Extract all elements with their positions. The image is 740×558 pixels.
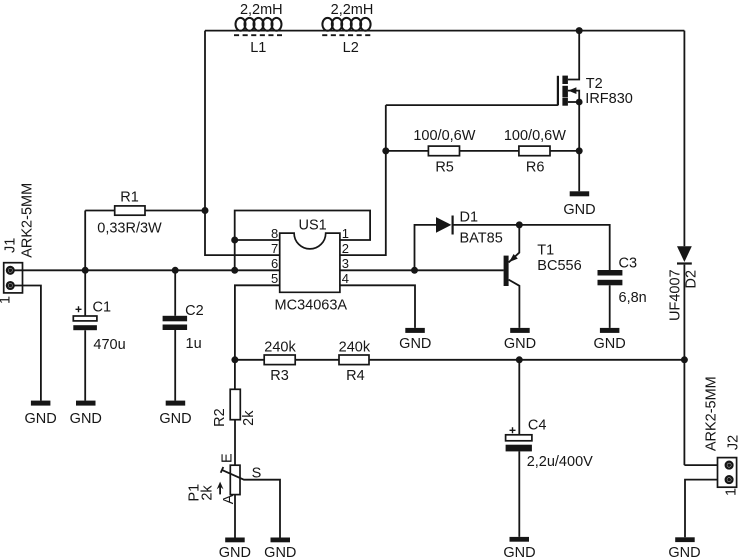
wire J1 pin1 to ground — [13, 286, 41, 401]
svg-text:1: 1 — [723, 488, 739, 496]
node R5 left junction on pin2 vertical — [382, 147, 389, 154]
svg-text:US1: US1 — [298, 217, 326, 233]
svg-text:ARK2-5MM: ARK2-5MM — [703, 376, 719, 451]
capacitor C4 — [506, 360, 594, 537]
svg-text:C4: C4 — [528, 418, 547, 434]
node pin8 loop junction on bus — [231, 267, 238, 274]
wire gate line from pin2 vertical to T2 gate — [386, 104, 558, 106]
svg-text:470u: 470u — [93, 337, 125, 353]
svg-text:GND: GND — [399, 336, 431, 352]
capacitor C2 — [163, 270, 204, 400]
svg-text:GND: GND — [219, 545, 251, 558]
svg-text:C1: C1 — [93, 300, 112, 316]
svg-text:2k: 2k — [199, 485, 215, 501]
svg-text:R2: R2 — [212, 408, 228, 427]
svg-text:MC34063A: MC34063A — [275, 298, 348, 314]
ground GND below J2 — [668, 537, 700, 558]
svg-text:R1: R1 — [120, 190, 139, 206]
svg-text:240k: 240k — [339, 340, 371, 356]
svg-text:1: 1 — [0, 296, 13, 304]
svg-text:R3: R3 — [270, 368, 289, 384]
svg-text:2k: 2k — [241, 410, 257, 426]
wire right vertical from top rail down to D2 — [683, 31, 685, 247]
svg-text:L1: L1 — [250, 40, 266, 56]
svg-text:A: A — [221, 494, 237, 504]
svg-text:D1: D1 — [460, 210, 479, 226]
svg-text:GND: GND — [504, 336, 536, 352]
svg-text:GND: GND — [668, 545, 700, 558]
ground GND below T2 — [563, 191, 595, 218]
diode D1 BAT85 — [436, 210, 519, 247]
svg-text:R6: R6 — [526, 160, 545, 176]
svg-text:GND: GND — [159, 411, 191, 427]
wire D1 cathode to C3 — [519, 225, 609, 270]
svg-text:GND: GND — [70, 411, 102, 427]
svg-text:J1: J1 — [2, 238, 18, 253]
svg-text:J2: J2 — [725, 435, 740, 450]
svg-text:T2: T2 — [586, 76, 603, 92]
node R6 right junction — [576, 147, 583, 154]
svg-text:D2: D2 — [683, 270, 699, 289]
resistor R2 — [212, 360, 257, 465]
resistor R4 — [339, 340, 371, 385]
svg-text:E: E — [219, 453, 235, 463]
svg-text:L2: L2 — [343, 40, 359, 56]
svg-text:GND: GND — [503, 545, 535, 558]
node drain junction on top rail — [576, 27, 583, 34]
wire from R1 node down then right to pin 7 — [205, 211, 280, 256]
svg-text:GND: GND — [593, 336, 625, 352]
pin 4 — [340, 271, 415, 328]
connector J2 — [703, 376, 740, 496]
resistor R6 — [504, 128, 579, 176]
svg-text:T1: T1 — [537, 243, 554, 259]
svg-text:UF4007: UF4007 — [668, 269, 684, 321]
ground GND below pin 4 — [399, 328, 431, 352]
capacitor C1 — [73, 270, 125, 400]
pin 3 — [340, 256, 504, 271]
wire T2 source to ground — [578, 151, 580, 191]
resistor R1 — [85, 190, 205, 237]
node rail left junction — [231, 356, 238, 363]
svg-text:GND: GND — [24, 411, 56, 427]
wire left vertical from top rail down to R1 node — [204, 31, 206, 211]
svg-text:2,2u/400V: 2,2u/400V — [527, 454, 593, 470]
pin 5 — [235, 271, 280, 360]
svg-text:100/0,6W: 100/0,6W — [413, 128, 475, 144]
capacitor C3 — [598, 256, 647, 328]
svg-text:GND: GND — [264, 545, 296, 558]
svg-text:7: 7 — [271, 241, 278, 256]
wire D2 rail down to J2 pin 2 — [684, 464, 717, 466]
node pin 8 junction — [231, 237, 238, 244]
svg-text:6: 6 — [271, 256, 278, 271]
resistor R5 — [386, 128, 519, 176]
ground GND below P1 wiper — [264, 538, 296, 558]
wire J2 pin 1 to ground — [685, 480, 718, 538]
op-amp U1 MC34063A body — [275, 217, 348, 313]
node C1 junction on bus — [82, 267, 89, 274]
inductor L1 — [234, 2, 283, 56]
svg-text:R5: R5 — [435, 160, 454, 176]
svg-text:3: 3 — [342, 256, 349, 271]
transistor T2 IRF830 — [558, 31, 633, 151]
svg-text:ARK2-5MM: ARK2-5MM — [19, 183, 35, 258]
svg-text:2: 2 — [342, 241, 349, 256]
wire output bottom rail — [235, 359, 685, 361]
svg-text:IRF830: IRF830 — [585, 91, 633, 107]
svg-text:2,2mH: 2,2mH — [331, 2, 374, 18]
svg-text:GND: GND — [563, 202, 595, 218]
svg-text:5: 5 — [271, 271, 278, 286]
wire R1 left lead down to input bus — [84, 211, 86, 271]
svg-text:C2: C2 — [185, 303, 204, 319]
svg-text:2,2mH: 2,2mH — [240, 2, 283, 18]
node R1 right junction — [202, 207, 209, 214]
ground GND below J1 — [24, 401, 56, 427]
svg-text:4: 4 — [342, 271, 349, 286]
node pin 3 junction — [411, 267, 418, 274]
svg-text:S: S — [252, 466, 262, 482]
pin 8 — [235, 226, 280, 241]
pin 2 — [340, 105, 386, 256]
svg-text:1: 1 — [342, 226, 349, 241]
svg-text:C3: C3 — [619, 256, 638, 272]
svg-text:240k: 240k — [264, 340, 296, 356]
svg-text:100/0,6W: 100/0,6W — [504, 128, 566, 144]
svg-text:0,33R/3W: 0,33R/3W — [97, 220, 162, 236]
node D2 rail junction — [681, 356, 688, 363]
diode D2 UF4007 — [668, 246, 700, 465]
node C4 junction — [516, 356, 523, 363]
ground GND below C4 — [503, 537, 535, 558]
svg-text:8: 8 — [271, 226, 278, 241]
transistor T1 BC556 — [504, 225, 582, 328]
ground GND below C3 — [593, 328, 625, 352]
wire top rail from left corner through L1 L2 to right corner — [205, 30, 684, 32]
wire pin3 node up to D1 anode — [415, 225, 437, 270]
node D1 cathode junction — [516, 221, 523, 228]
potentiometer P1 — [187, 453, 280, 537]
node C2 junction on bus — [172, 267, 179, 274]
ground GND below P1 — [219, 538, 251, 558]
resistor R3 — [264, 340, 296, 385]
wire input bus from J1 to pin 6 — [13, 269, 280, 271]
inductor L2 — [322, 2, 373, 56]
svg-text:BC556: BC556 — [537, 258, 581, 274]
ground GND below T1 — [504, 328, 536, 352]
wire pin8 to pin1 loop over the IC — [235, 211, 370, 271]
svg-text:1u: 1u — [186, 336, 202, 352]
connector J1 — [0, 183, 35, 304]
svg-text:6,8n: 6,8n — [619, 290, 647, 306]
svg-text:BAT85: BAT85 — [460, 231, 503, 247]
svg-text:R4: R4 — [346, 368, 365, 384]
ground GND below C1 — [70, 401, 102, 427]
ground GND below C2 — [159, 401, 191, 427]
